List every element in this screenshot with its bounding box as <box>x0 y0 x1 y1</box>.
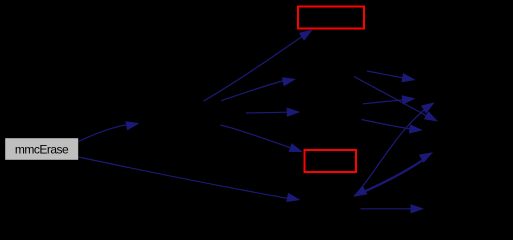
red node box R1 (top, truncated) <box>298 7 364 29</box>
edge N1 to N3 <box>246 111 289 114</box>
arrowhead into N1 <box>126 121 140 130</box>
arrowhead into Y <box>419 152 433 163</box>
edge N5 to T5 (horizontal) <box>361 208 413 210</box>
svg-text:mmcErase: mmcErase <box>15 143 69 157</box>
arrowhead into N3 <box>287 108 301 117</box>
arrowhead into T2 <box>402 95 416 104</box>
arrowhead into X <box>421 102 435 113</box>
edge N2 to T1 <box>367 71 404 78</box>
arrowhead into N5 (from mmcErase) <box>286 193 300 202</box>
arrowhead into T5 <box>411 204 425 213</box>
edge N3 to T4 <box>362 120 412 130</box>
arrowhead into T3 <box>424 111 438 122</box>
edge N5/Y pair (two antiparallel overlapping strokes) <box>356 159 427 197</box>
edge N3 to T2 <box>363 100 404 104</box>
arrowhead into R1 <box>299 30 313 41</box>
edge N1 to N2 <box>221 81 284 101</box>
edge N1 to R1 <box>204 33 308 101</box>
edge mmcErase to N1 <box>79 124 134 142</box>
node mmcErase (root, gray) <box>5 138 78 160</box>
edge N2 to T3 (long diagonal) <box>354 77 427 117</box>
red node box R2 (middle, truncated) <box>305 150 357 172</box>
arrowhead into T4 <box>409 124 423 133</box>
arrowhead into R2 <box>289 143 303 152</box>
arrowhead into N2 <box>282 77 296 86</box>
arrowhead back into N5 (from Y) <box>353 186 367 197</box>
edge N5 to X (steep curve up) <box>354 106 430 197</box>
arrowhead into T1 <box>402 73 416 82</box>
edge mmcErase to N5 <box>79 157 290 199</box>
edge N1 to R2 <box>220 125 291 148</box>
